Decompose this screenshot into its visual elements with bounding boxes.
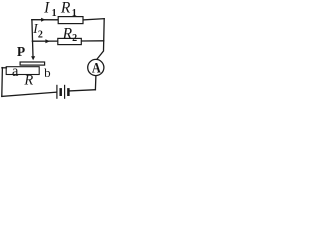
resistor R2 — [58, 38, 82, 44]
wire left vertical — [1, 68, 4, 97]
svg-text:R: R — [62, 25, 73, 42]
wire I2 branch from left vertical to R2 — [32, 40, 58, 42]
wire top left from node to R1 — [32, 19, 59, 21]
wire R2 to right vertical junction — [81, 40, 104, 42]
arrow slider P head — [31, 56, 35, 60]
svg-text:a: a — [12, 62, 19, 80]
wire right vertical down to ammeter — [97, 19, 105, 60]
resistor R1 — [58, 17, 83, 24]
wire bottom left to battery — [2, 92, 57, 96]
rheostat R box — [6, 67, 39, 75]
battery short thick plate 2 — [67, 88, 70, 96]
rheostat slider rail bar — [20, 62, 44, 65]
svg-text:P: P — [17, 44, 25, 59]
wire right lower vertical to ammeter bottom — [94, 76, 97, 90]
wire R1 to top-right corner — [83, 19, 104, 20]
svg-text:2: 2 — [38, 29, 43, 40]
arrow I1 — [41, 18, 45, 22]
ammeter A circle — [88, 59, 104, 75]
wire left branch vertical from top node down to slider arrow — [32, 20, 33, 57]
arrow I2 — [45, 39, 50, 43]
svg-text:I: I — [43, 0, 50, 17]
battery long plate 1 — [56, 85, 58, 99]
svg-text:b: b — [44, 65, 51, 80]
svg-text:1: 1 — [52, 8, 57, 19]
wire battery to bottom right corner — [69, 90, 95, 91]
svg-text:R: R — [60, 0, 71, 17]
svg-text:A: A — [92, 59, 101, 75]
battery short thick plate 1 — [59, 88, 62, 96]
svg-text:1: 1 — [72, 8, 77, 19]
svg-text:2: 2 — [72, 33, 77, 44]
svg-text:R: R — [23, 73, 33, 89]
battery long plate 2 — [64, 85, 66, 99]
wire left connector rheostat to left vertical — [2, 67, 7, 69]
